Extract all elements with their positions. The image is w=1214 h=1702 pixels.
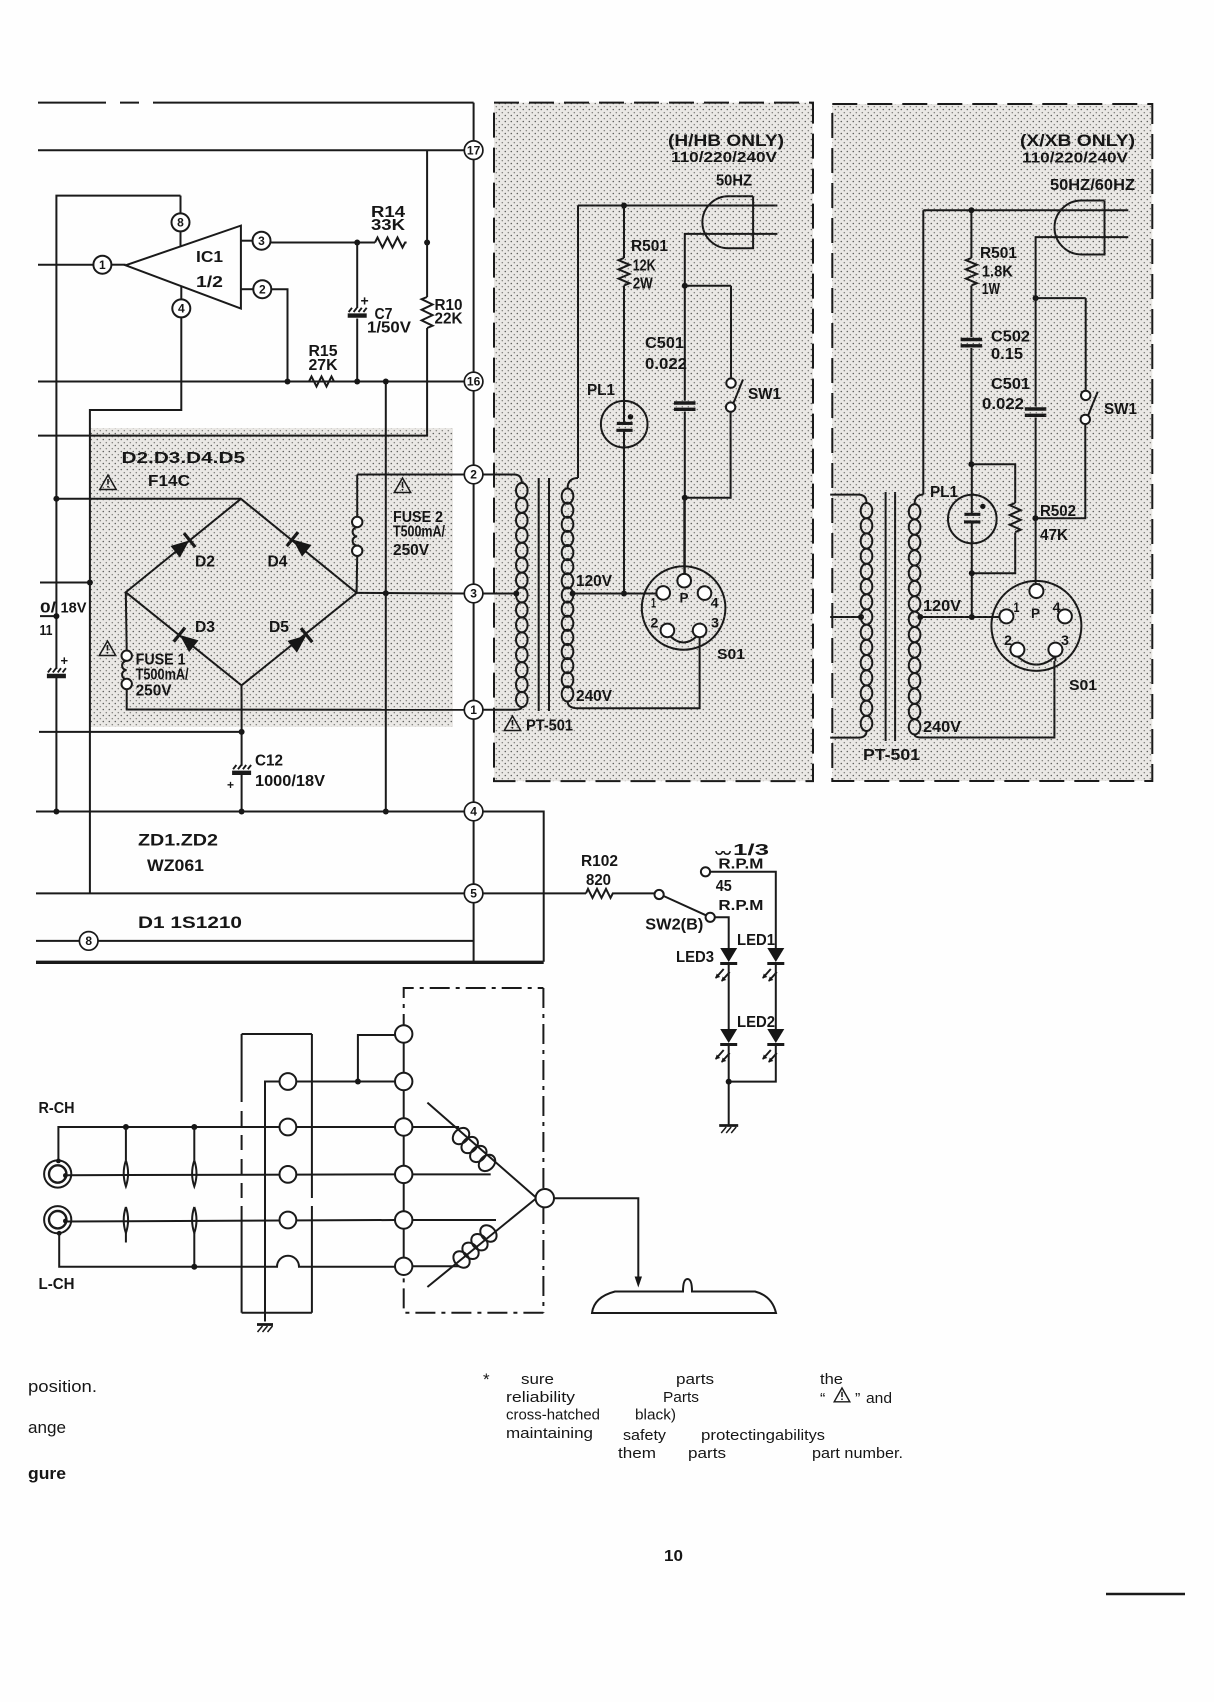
svg-text:11: 11 <box>40 623 53 639</box>
svg-text:R-CH: R-CH <box>39 1100 75 1117</box>
warning triangle (PT-501) <box>504 716 520 731</box>
wire bottom prong (X) <box>1036 237 1129 298</box>
wire R signal line <box>65 1173 395 1176</box>
wire C502 down <box>968 348 974 467</box>
svg-text:D4: D4 <box>268 554 288 571</box>
resistor R15 <box>297 377 334 387</box>
warning triangle (FUSE2) <box>394 478 410 493</box>
capacitor C11 (partial label 0/18V) <box>47 653 69 676</box>
svg-text:3: 3 <box>1061 633 1070 648</box>
node 17 <box>464 141 483 160</box>
wire 120V line (X) <box>917 614 1000 620</box>
wire y=731.9 line <box>39 731 242 733</box>
svg-text:C12: C12 <box>255 753 283 770</box>
wire hot line + top prong <box>578 203 777 209</box>
label C12 1000/18V <box>255 753 326 791</box>
diode D5 <box>287 628 313 654</box>
svg-text:16: 16 <box>467 375 481 389</box>
resistor R102 <box>483 889 654 898</box>
diode D3 <box>174 628 200 654</box>
wire LED3 to LED2a <box>728 965 730 1029</box>
svg-text:SW1: SW1 <box>748 386 781 403</box>
svg-text:120V: 120V <box>576 573 613 590</box>
wire node-17 line <box>38 149 464 151</box>
transformer secondary hook top <box>568 478 579 489</box>
svg-text:1: 1 <box>1014 600 1020 615</box>
lamp PL1 (X/XB) <box>948 464 997 543</box>
svg-text:2: 2 <box>1004 633 1012 648</box>
wire 240V line <box>578 637 700 708</box>
label R15 27K <box>309 343 339 374</box>
svg-text:4: 4 <box>178 302 185 316</box>
cable shield lens L1 <box>124 1207 128 1243</box>
footer warning triangle <box>834 1388 850 1402</box>
svg-text:50HZ/60HZ: 50HZ/60HZ <box>1050 177 1136 194</box>
svg-text:17: 17 <box>467 143 481 157</box>
wire primary tap to node 3 <box>483 591 519 597</box>
label C501 0.022 <box>645 335 687 373</box>
capacitor C7 branch wire <box>354 243 360 385</box>
svg-text:PT-501: PT-501 <box>863 747 920 764</box>
svg-text:T500mA/: T500mA/ <box>393 524 445 541</box>
svg-text:110/220/240V: 110/220/240V <box>1022 150 1128 167</box>
wire thick bottom separator <box>36 961 544 964</box>
wire R501 to PL1 <box>623 286 625 423</box>
wire pin3 to R14 <box>271 240 430 246</box>
svg-text:position.: position. <box>28 1377 97 1396</box>
warning triangle (FUSE1) <box>99 641 115 656</box>
svg-text:2: 2 <box>650 616 658 631</box>
label FUSE 1 T500mA/ 250V <box>136 652 189 700</box>
transformer secondary hook top (X) <box>915 495 924 504</box>
wire motor tap 3 <box>412 1126 459 1128</box>
svg-text:*: * <box>483 1370 490 1389</box>
wire conn circle1 to ground <box>265 1082 280 1322</box>
bottom right rule <box>1106 1593 1185 1596</box>
resistor R501 (X/XB) <box>966 210 977 285</box>
wire motor terminal rail <box>403 1034 405 1266</box>
svg-text:part number.: part number. <box>812 1445 903 1462</box>
wire 120V tap line <box>570 591 657 597</box>
svg-text:D3: D3 <box>195 619 215 636</box>
AC plug (X/XB) <box>1055 201 1105 255</box>
cable shield lens L2 <box>192 1207 196 1267</box>
node 4 <box>464 802 483 821</box>
capacitor C501 (H/HB) <box>674 403 696 409</box>
fuse FUSE1 <box>122 592 132 709</box>
svg-text:abilitys: abilitys <box>775 1427 825 1444</box>
svg-text:IC1: IC1 <box>196 249 223 266</box>
wire PL1 to 120V tap <box>621 431 627 597</box>
wire C501 branch (X) <box>1032 295 1038 585</box>
svg-text:them: them <box>618 1445 656 1462</box>
footer column B <box>618 1371 825 1462</box>
wire LED chains join <box>726 1046 776 1125</box>
wire to bridge top vertex <box>53 496 241 502</box>
svg-text:“: “ <box>820 1391 825 1408</box>
op-amp IC1 feedback box wire <box>56 196 180 499</box>
wire left branch to transformer (X) <box>922 210 924 494</box>
shaded rectifier region <box>91 428 453 727</box>
svg-text:C501: C501 <box>645 335 684 352</box>
transformer core (X) <box>886 492 896 741</box>
svg-text:R501: R501 <box>980 245 1017 262</box>
motor winding lower coil <box>450 1222 500 1271</box>
resistor R501 (H/HB) <box>619 206 630 286</box>
label ZD1.ZD2 WZ061 <box>138 831 218 876</box>
svg-text:gure: gure <box>28 1464 66 1483</box>
switch SW1 (X/XB) <box>1035 298 1097 518</box>
footer text left <box>28 1377 97 1483</box>
svg-text:47K: 47K <box>1040 527 1069 544</box>
capacitor C502 <box>961 340 983 346</box>
transformer PT-501 (H/HB) primary winding <box>516 483 528 707</box>
wire C501 branch <box>682 283 688 575</box>
motor star node <box>536 1189 554 1207</box>
wire C12 branch <box>239 710 245 815</box>
wire 45rpm contact to LED3 chain <box>715 917 729 948</box>
wire left rail lower <box>55 499 57 669</box>
transformer PT-501 (X/XB) primary stub top <box>830 495 866 503</box>
wire R10 down + corner to left <box>38 328 427 436</box>
svg-text:12K: 12K <box>633 258 657 275</box>
svg-text:the: the <box>820 1371 843 1388</box>
node 3 <box>464 584 483 603</box>
voltage selector S01 (H/HB) <box>642 566 726 650</box>
wire C7-branch vertical x=385.8 <box>383 379 389 815</box>
svg-text:maintaining: maintaining <box>506 1425 593 1442</box>
op-amp U IC1 triangle <box>126 226 241 309</box>
svg-text:820: 820 <box>586 872 611 889</box>
svg-text:250V: 250V <box>393 542 429 559</box>
svg-text:0.15: 0.15 <box>991 346 1023 363</box>
svg-text:2W: 2W <box>633 276 653 293</box>
svg-text:PL1: PL1 <box>587 382 615 399</box>
node 1 <box>464 701 483 720</box>
label 0/18V <box>40 601 87 617</box>
svg-text:1: 1 <box>651 596 656 611</box>
RCA jack L <box>44 1206 71 1236</box>
svg-text:(X/XB ONLY): (X/XB ONLY) <box>1020 132 1135 150</box>
label R10 22K <box>435 297 464 328</box>
svg-text:ange: ange <box>28 1418 66 1437</box>
svg-text:SW2(B): SW2(B) <box>645 917 703 934</box>
switch SW2(B) <box>655 867 715 922</box>
wire top dashed bus <box>38 102 474 104</box>
resistor R10 <box>422 297 433 328</box>
wire label leader <box>40 613 59 619</box>
label 45 R.P.M <box>716 878 764 914</box>
transformer primary hook bottom (X) <box>830 731 866 738</box>
capacitor C7 <box>348 293 369 316</box>
transformer PT-501 (X/XB) secondary winding <box>909 504 921 734</box>
svg-text:110/220/240V: 110/220/240V <box>671 149 777 166</box>
svg-text:240V: 240V <box>923 719 962 736</box>
wire PL1 bottom to 120V tap (X) <box>969 522 975 620</box>
svg-text:0.022: 0.022 <box>982 396 1024 413</box>
transformer PT-501 (H/HB) primary hook top <box>483 475 522 484</box>
wire L signal line <box>65 1220 395 1222</box>
svg-text:L-CH: L-CH <box>39 1276 75 1293</box>
svg-text:”: ” <box>855 1391 860 1408</box>
svg-text:Parts: Parts <box>663 1389 699 1406</box>
LED2 (left) <box>715 1029 737 1063</box>
svg-text:P: P <box>1031 606 1040 621</box>
svg-text:protecting: protecting <box>701 1427 775 1444</box>
node (8) <box>36 932 473 951</box>
svg-text:F14C: F14C <box>148 473 190 490</box>
svg-text:+: + <box>227 778 234 792</box>
label R502 47K <box>1040 503 1076 544</box>
wire R ground line <box>58 1124 395 1160</box>
label C7 1/50V <box>367 306 412 337</box>
wire R14/R10 vertical <box>426 150 428 297</box>
svg-text:8: 8 <box>85 934 92 948</box>
transformer secondary hook bottom (X) <box>915 735 922 738</box>
svg-text:18V: 18V <box>61 601 87 617</box>
svg-text:240V: 240V <box>576 688 613 705</box>
switch SW1 (H/HB) <box>685 286 743 498</box>
svg-text:R501: R501 <box>631 238 668 255</box>
lamp PL1 (H/HB) <box>601 401 648 448</box>
svg-text:+: + <box>361 293 369 309</box>
wire node5 line <box>36 892 464 894</box>
svg-text:PT-501: PT-501 <box>526 718 573 735</box>
label R501 12K 2W <box>631 238 668 293</box>
svg-text:parts: parts <box>676 1371 714 1388</box>
wire LED1 to LED2b <box>775 965 777 1029</box>
svg-text:WZ061: WZ061 <box>147 856 204 875</box>
svg-text:D2: D2 <box>195 554 215 571</box>
svg-text:27K: 27K <box>309 357 339 374</box>
AC plug (H/HB) <box>702 196 753 248</box>
svg-text:C502: C502 <box>991 329 1030 346</box>
svg-text:5: 5 <box>470 887 477 901</box>
svg-text:22K: 22K <box>435 311 464 328</box>
svg-text:parts: parts <box>688 1445 726 1462</box>
node 5 <box>464 884 483 903</box>
wire node4 right + edge vertical <box>483 812 544 962</box>
label IC1 1/2 <box>196 249 223 291</box>
diode D4 <box>287 532 313 558</box>
ground (connector) <box>257 1325 273 1333</box>
wire S01 pinP up <box>683 498 685 574</box>
svg-text:2: 2 <box>470 468 477 482</box>
wire motor tap 6 <box>412 1265 459 1267</box>
wire bottom vertex stub <box>241 685 243 709</box>
wire star to platter arrow <box>554 1198 642 1287</box>
LED2 (right) <box>762 1029 784 1063</box>
X/XB ONLY dashed box <box>832 104 1152 781</box>
svg-text:1W: 1W <box>982 281 1000 298</box>
motor dash-dot box <box>404 988 544 1313</box>
svg-text:safety: safety <box>623 1427 667 1444</box>
diode bridge diamond <box>126 499 357 686</box>
transformer PT-501 (H/HB) secondary winding <box>562 489 574 702</box>
wire node4 line <box>36 809 464 815</box>
wire R501 to C502 <box>970 286 972 338</box>
motor winding upper coil <box>450 1125 499 1175</box>
transformer primary hook bottom <box>483 707 522 710</box>
svg-text:and: and <box>866 1390 892 1407</box>
svg-text:LED3: LED3 <box>676 949 714 966</box>
svg-text:D2.D3.D4.D5: D2.D3.D4.D5 <box>122 450 246 467</box>
svg-text:3: 3 <box>470 587 477 601</box>
motor winding upper diagonal <box>427 1103 536 1198</box>
label C501 0.022 (X) <box>982 376 1030 413</box>
svg-text:S01: S01 <box>1069 677 1097 694</box>
diode D2 <box>170 533 196 559</box>
svg-text:T500mA/: T500mA/ <box>136 667 189 684</box>
svg-text:3: 3 <box>711 616 720 631</box>
wire motor tap 5 <box>412 1219 496 1221</box>
label R14 33K <box>371 204 406 234</box>
resistor R14 <box>375 238 407 248</box>
svg-text:LED2: LED2 <box>737 1014 775 1031</box>
svg-text:45: 45 <box>716 878 732 895</box>
motor terminal circles <box>395 1025 412 1275</box>
svg-text:reliability: reliability <box>506 1389 576 1406</box>
label D2.D3.D4.D5 / F14C <box>122 450 246 490</box>
warning triangle (bridge) <box>100 475 116 490</box>
node 2 <box>464 465 483 484</box>
label R102 820 <box>581 853 618 889</box>
wire 240V line (X) <box>922 656 1055 737</box>
wire bottom prong <box>685 234 778 286</box>
svg-text:+: + <box>61 653 69 668</box>
resistor R502 branch <box>971 464 1020 573</box>
svg-text:4: 4 <box>1053 600 1062 615</box>
wire motor tap 4 <box>412 1173 490 1175</box>
svg-text:250V: 250V <box>136 683 172 700</box>
platter symbol <box>592 1279 776 1313</box>
wire left branch down to transformer <box>577 206 579 479</box>
op-amp IC1 pin 1 <box>38 256 126 274</box>
label R501 1.8K 1W <box>980 245 1017 298</box>
svg-text:1.8K: 1.8K <box>982 264 1014 281</box>
label 33 1/3 R.P.M <box>716 842 770 873</box>
svg-text:R.P.M: R.P.M <box>718 897 763 914</box>
svg-text:C501: C501 <box>991 376 1030 393</box>
svg-text:10: 10 <box>664 1548 683 1565</box>
connector pin circles <box>280 1073 297 1228</box>
label S01 pins P 1 4 2 3 <box>650 591 719 631</box>
svg-text:R.P.M: R.P.M <box>718 856 763 873</box>
label C502 0.15 <box>991 329 1030 364</box>
footer column C <box>812 1371 903 1462</box>
footer column A <box>506 1371 600 1442</box>
svg-text:D5: D5 <box>269 619 289 636</box>
label FUSE 2 T500mA/ 250V <box>393 509 445 559</box>
connector block rectangle <box>242 1034 312 1313</box>
svg-text:4: 4 <box>470 805 477 819</box>
op-amp IC1 pin 3 <box>241 232 271 250</box>
wire left rail below C11 <box>55 678 57 812</box>
transformer secondary hook bottom <box>568 701 579 708</box>
transformer PT-501 (X/XB) primary winding <box>861 503 873 731</box>
wire pin4 to left rail <box>90 317 181 893</box>
svg-text:SW1: SW1 <box>1104 401 1137 418</box>
ground (LED chain) <box>719 1126 738 1134</box>
svg-text:1000/18V: 1000/18V <box>255 773 326 790</box>
svg-text:(H/HB ONLY): (H/HB ONLY) <box>668 132 784 150</box>
wire node1 line left part <box>126 709 465 711</box>
wire hot line + top prong (X) <box>923 207 1128 213</box>
svg-text:P: P <box>680 591 689 606</box>
motor winding lower diagonal <box>427 1199 536 1288</box>
svg-text:120V: 120V <box>923 598 962 615</box>
transformer core <box>539 478 549 711</box>
svg-text:sure: sure <box>521 1371 554 1388</box>
svg-text:1: 1 <box>470 703 477 717</box>
wire node3 line left part <box>357 590 465 596</box>
svg-text:PL1: PL1 <box>930 484 958 501</box>
capacitor C12 <box>227 765 251 792</box>
voltage selector S01 (X/XB) <box>991 581 1081 671</box>
svg-text:1/2: 1/2 <box>196 274 223 291</box>
wire y=582 stub <box>40 580 93 586</box>
op-amp IC1 pin 2 <box>241 280 271 298</box>
svg-text:1/50V: 1/50V <box>367 320 412 337</box>
svg-text:R102: R102 <box>581 853 618 870</box>
fuse FUSE2 <box>352 475 362 593</box>
capacitor C501 (X/XB) <box>1025 409 1047 415</box>
LED1 <box>762 948 784 982</box>
wire conn circle1 to motor terminals 1,2 <box>296 1035 395 1085</box>
svg-text:1: 1 <box>99 258 106 272</box>
cable shield lens R2 <box>192 1127 196 1186</box>
wire main vertical bus <box>473 103 475 962</box>
svg-text:8: 8 <box>177 216 184 230</box>
svg-text:cross-hatched: cross-hatched <box>506 1407 600 1424</box>
svg-text:D1 1S1210: D1 1S1210 <box>138 913 242 932</box>
svg-text:0/: 0/ <box>40 601 56 617</box>
label S01 pins (X) <box>1004 600 1070 648</box>
wire L ground line with hop <box>59 1233 395 1269</box>
svg-text:3: 3 <box>258 234 265 248</box>
wire node2 line left part <box>357 474 464 476</box>
cable shield lens R1 <box>124 1127 128 1186</box>
LED3 <box>715 948 737 982</box>
svg-text:33K: 33K <box>371 217 406 234</box>
op-amp IC1 pin 8 <box>172 196 190 247</box>
op-amp IC1 pin 4 <box>172 287 190 318</box>
svg-text:black): black) <box>635 1407 676 1424</box>
svg-text:4: 4 <box>711 596 720 611</box>
node 16 <box>464 372 483 391</box>
RCA jack R <box>44 1159 71 1188</box>
svg-text:LED1: LED1 <box>737 932 775 949</box>
svg-text:0.022: 0.022 <box>645 356 687 373</box>
wire pin2 down to node16 line <box>272 289 291 384</box>
svg-text:2: 2 <box>259 282 266 296</box>
svg-text:ZD1.ZD2: ZD1.ZD2 <box>138 831 218 850</box>
wire 33rpm contact to LED1 chain <box>710 872 776 948</box>
wire node-16 line <box>38 381 464 383</box>
H/HB ONLY dashed box <box>494 103 813 782</box>
svg-text:50HZ: 50HZ <box>716 173 753 190</box>
wire primary tap stub <box>830 614 864 620</box>
svg-text:S01: S01 <box>717 646 745 663</box>
